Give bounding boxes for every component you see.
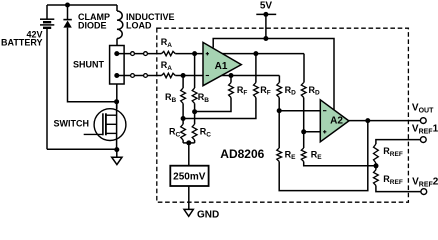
svg-text:GND: GND — [197, 210, 219, 221]
svg-text:RD: RD — [309, 85, 321, 97]
svg-text:250mV: 250mV — [173, 171, 206, 182]
svg-text:RA: RA — [161, 37, 173, 49]
svg-text:RREF: RREF — [383, 174, 403, 186]
svg-text:RREF: RREF — [383, 146, 403, 158]
svg-text:VREF2: VREF2 — [412, 176, 438, 188]
svg-text:RC: RC — [169, 127, 181, 139]
svg-text:DIODE: DIODE — [78, 21, 107, 31]
svg-text:RA: RA — [161, 60, 173, 72]
svg-text:A1: A1 — [215, 61, 228, 72]
svg-text:RB: RB — [198, 92, 210, 104]
svg-text:RD: RD — [285, 85, 297, 97]
svg-text:RC: RC — [200, 127, 212, 139]
svg-text:RE: RE — [285, 149, 297, 161]
svg-text:RE: RE — [311, 149, 323, 161]
svg-text:SHUNT: SHUNT — [73, 60, 105, 70]
svg-text:VREF1: VREF1 — [412, 124, 438, 136]
svg-text:RF: RF — [260, 85, 271, 97]
svg-text:RF: RF — [237, 85, 248, 97]
svg-text:BATTERY: BATTERY — [1, 38, 43, 48]
svg-text:SWITCH: SWITCH — [54, 118, 90, 128]
svg-text:RB: RB — [165, 92, 177, 104]
svg-text:5V: 5V — [260, 0, 273, 11]
svg-text:AD8206: AD8206 — [220, 147, 264, 161]
svg-text:VOUT: VOUT — [412, 102, 434, 114]
svg-text:LOAD: LOAD — [126, 21, 152, 31]
svg-text:A2: A2 — [330, 116, 343, 127]
